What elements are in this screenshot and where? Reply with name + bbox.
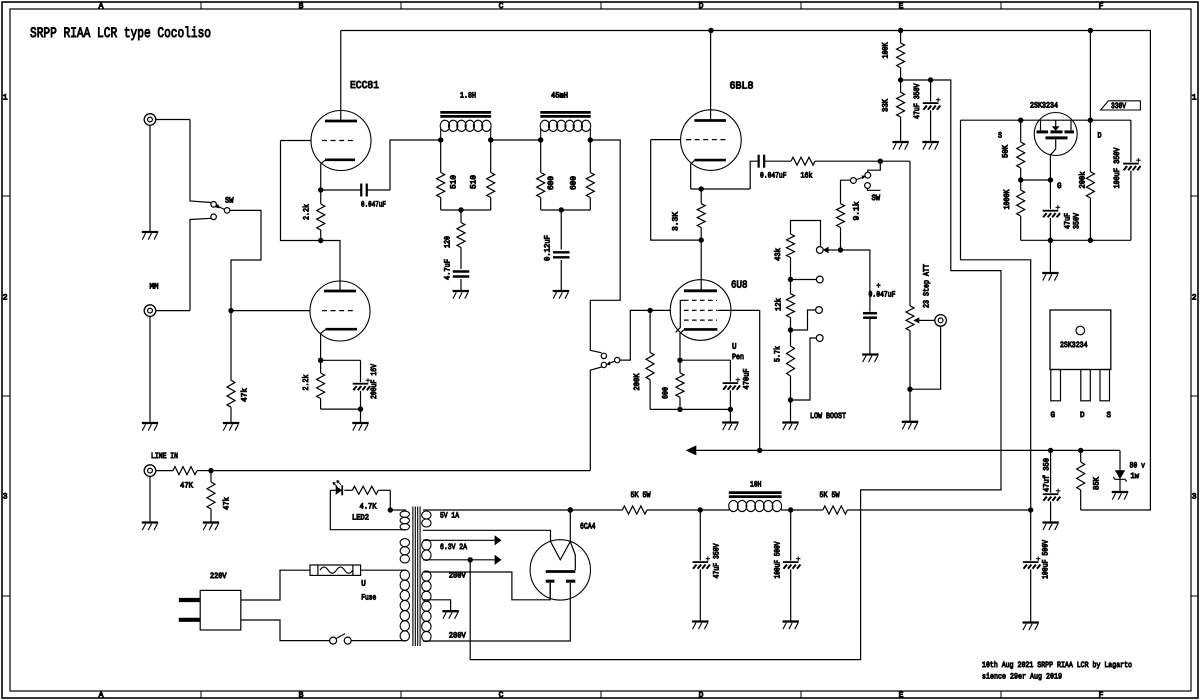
svg-text:600: 600 bbox=[662, 387, 671, 399]
svg-text:4.7K: 4.7K bbox=[360, 503, 377, 512]
svg-text:47uF: 47uF bbox=[1064, 213, 1073, 229]
svg-text:SRPP RIAA LCR type Cocoliso: SRPP RIAA LCR type Cocoliso bbox=[30, 26, 211, 42]
svg-text:1.8H: 1.8H bbox=[460, 92, 476, 101]
svg-text:4.7uF: 4.7uF bbox=[444, 259, 453, 280]
svg-text:45mH: 45mH bbox=[551, 92, 568, 101]
svg-text:E: E bbox=[899, 2, 904, 11]
svg-text:SW: SW bbox=[872, 194, 881, 203]
svg-text:D: D bbox=[1080, 411, 1085, 420]
svg-text:0.047uF: 0.047uF bbox=[760, 172, 787, 181]
svg-text:5K 5W: 5K 5W bbox=[820, 491, 840, 500]
svg-text:G: G bbox=[1057, 182, 1062, 191]
svg-text:S: S bbox=[1107, 411, 1112, 420]
svg-text:47uF 350V: 47uF 350V bbox=[713, 543, 722, 578]
svg-text:600: 600 bbox=[570, 176, 579, 190]
svg-text:B: B bbox=[299, 2, 304, 11]
svg-text:10H: 10H bbox=[750, 481, 762, 490]
svg-text:Pen: Pen bbox=[732, 353, 744, 362]
svg-text:350V: 350V bbox=[1073, 213, 1082, 229]
svg-text:100K: 100K bbox=[882, 42, 891, 58]
svg-text:200k: 200k bbox=[1079, 171, 1088, 188]
svg-text:A: A bbox=[99, 691, 104, 700]
svg-text:16k: 16k bbox=[801, 172, 813, 181]
svg-text:C: C bbox=[499, 2, 504, 11]
svg-text:5.7k: 5.7k bbox=[774, 346, 783, 362]
svg-text:Fuse: Fuse bbox=[361, 594, 376, 603]
svg-text:6.3V 2A: 6.3V 2A bbox=[440, 543, 467, 552]
svg-text:A: A bbox=[99, 2, 104, 11]
svg-text:S: S bbox=[998, 132, 1002, 141]
svg-text:6CA4: 6CA4 bbox=[580, 522, 596, 532]
svg-text:F: F bbox=[1099, 691, 1104, 700]
svg-text:0.047uF: 0.047uF bbox=[361, 201, 386, 210]
svg-text:MM: MM bbox=[150, 283, 159, 292]
svg-text:LINE IN: LINE IN bbox=[151, 452, 178, 461]
svg-text:E: E bbox=[899, 691, 904, 700]
svg-text:5K 5W: 5K 5W bbox=[631, 491, 651, 500]
svg-text:1: 1 bbox=[3, 94, 8, 103]
svg-text:510: 510 bbox=[450, 175, 459, 189]
svg-text:80 v: 80 v bbox=[1130, 462, 1146, 471]
svg-text:220V: 220V bbox=[210, 572, 227, 581]
svg-text:LED2: LED2 bbox=[352, 514, 369, 523]
svg-text:U: U bbox=[732, 343, 737, 352]
svg-text:6BL8: 6BL8 bbox=[730, 81, 754, 93]
svg-text:47K: 47K bbox=[180, 482, 193, 491]
svg-text:D: D bbox=[1098, 132, 1102, 141]
svg-text:47k: 47k bbox=[223, 497, 232, 510]
svg-text:U: U bbox=[361, 580, 366, 589]
svg-text:ECC81: ECC81 bbox=[350, 80, 379, 92]
svg-text:3.3K: 3.3K bbox=[672, 212, 681, 231]
svg-text:D: D bbox=[699, 691, 704, 700]
svg-text:47uF 350V: 47uF 350V bbox=[913, 83, 922, 119]
svg-text:23 Step ATT: 23 Step ATT bbox=[923, 264, 932, 308]
svg-text:47k: 47k bbox=[241, 388, 250, 402]
svg-text:280V: 280V bbox=[449, 632, 466, 641]
svg-text:0.12uF: 0.12uF bbox=[544, 235, 553, 261]
svg-text:F: F bbox=[1099, 2, 1104, 11]
svg-text:LOW BOOST: LOW BOOST bbox=[810, 412, 846, 421]
svg-text:100uF 500V: 100uF 500V bbox=[774, 541, 783, 578]
svg-text:2.2k: 2.2k bbox=[303, 204, 312, 220]
svg-text:330V: 330V bbox=[1111, 102, 1126, 111]
svg-text:200K: 200K bbox=[633, 373, 642, 390]
svg-text:B: B bbox=[299, 691, 304, 700]
svg-text:1w: 1w bbox=[1131, 472, 1140, 481]
svg-text:510: 510 bbox=[470, 175, 479, 189]
svg-text:9.1k: 9.1k bbox=[853, 201, 862, 220]
svg-text:120: 120 bbox=[444, 236, 453, 248]
svg-text:5V 1A: 5V 1A bbox=[440, 511, 459, 520]
svg-text:43k: 43k bbox=[774, 248, 783, 261]
svg-text:12k: 12k bbox=[775, 298, 784, 311]
svg-text:sience 29er Aug 2019: sience 29er Aug 2019 bbox=[982, 673, 1062, 682]
svg-text:6U8: 6U8 bbox=[731, 280, 748, 292]
svg-text:2.2k: 2.2k bbox=[302, 374, 311, 390]
svg-text:2SK3234: 2SK3234 bbox=[1030, 102, 1058, 111]
svg-text:3: 3 bbox=[1192, 493, 1197, 502]
svg-text:SW: SW bbox=[225, 197, 234, 206]
svg-text:33K: 33K bbox=[882, 99, 891, 112]
svg-text:600: 600 bbox=[547, 176, 556, 190]
svg-text:470uF: 470uF bbox=[743, 368, 752, 389]
svg-text:1: 1 bbox=[1192, 94, 1197, 103]
svg-text:200uF 16V: 200uF 16V bbox=[370, 364, 379, 399]
svg-text:85K: 85K bbox=[1093, 477, 1102, 490]
svg-text:D: D bbox=[699, 2, 704, 11]
svg-text:3: 3 bbox=[3, 493, 8, 502]
svg-text:100uF 350V: 100uF 350V bbox=[1113, 147, 1122, 188]
svg-text:1000K: 1000K bbox=[1003, 189, 1012, 209]
svg-text:280V: 280V bbox=[449, 572, 466, 581]
svg-text:2: 2 bbox=[1192, 294, 1197, 303]
svg-text:2SK3234: 2SK3234 bbox=[1060, 341, 1088, 350]
svg-text:2: 2 bbox=[3, 294, 8, 303]
svg-text:50K: 50K bbox=[1002, 145, 1011, 158]
svg-text:G: G bbox=[1051, 411, 1056, 420]
svg-text:47uf 350: 47uf 350 bbox=[1043, 458, 1052, 492]
svg-text:10th Aug 2021 SRPP RIAA LCR by: 10th Aug 2021 SRPP RIAA LCR by Lagarto bbox=[982, 661, 1132, 670]
svg-text:C: C bbox=[499, 691, 504, 700]
svg-text:0.047uF: 0.047uF bbox=[869, 291, 896, 300]
svg-text:100uF 500V: 100uF 500V bbox=[1042, 540, 1051, 579]
